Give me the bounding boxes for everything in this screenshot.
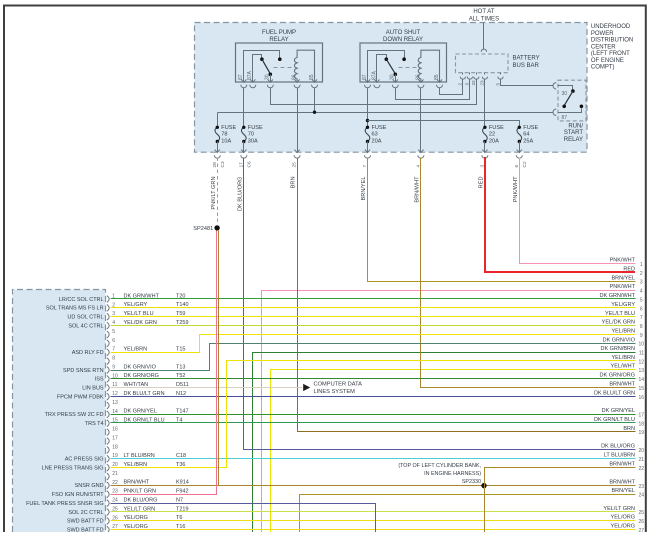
left connector pin 7 stub	[107, 347, 115, 356]
left pin 14 wire label DK GRN/YEL T147	[124, 409, 189, 415]
wire BRN/WHT asd relay coil to right pin 15	[421, 158, 636, 388]
svg-text:SWD BATT FD: SWD BATT FD	[67, 528, 104, 532]
svg-text:23: 23	[112, 489, 118, 495]
wire YEL/BRN left pin 7 to right pin 9	[111, 335, 636, 353]
svg-text:T147: T147	[176, 409, 189, 415]
svg-text:10: 10	[639, 342, 645, 348]
svg-text:PNK/LT GRN: PNK/LT GRN	[124, 489, 157, 495]
bus bar pin 23	[480, 73, 488, 86]
left connector pin 19 stub	[107, 453, 118, 462]
left connector pin 22 stub	[107, 480, 118, 489]
asd relay pin connector at x=439.5	[437, 79, 443, 87]
fuel pump relay pin connector at x=243.8	[241, 79, 247, 87]
right pin 3 label BRN/YEL	[611, 275, 642, 285]
svg-text:UD SOL CTRL: UD SOL CTRL	[67, 315, 103, 321]
svg-text:C6: C6	[246, 161, 252, 167]
svg-text:DK BLU/ORG: DK BLU/ORG	[601, 443, 635, 449]
svg-text:15: 15	[639, 386, 645, 392]
svg-text:87: 87	[362, 74, 368, 80]
svg-text:YEL/DK GRN: YEL/DK GRN	[602, 320, 635, 326]
svg-text:14: 14	[639, 377, 645, 383]
svg-text:BRN/WHT: BRN/WHT	[124, 480, 150, 486]
svg-text:1: 1	[640, 262, 643, 268]
svg-text:3: 3	[465, 83, 470, 86]
left connector pin 15 stub	[107, 418, 118, 427]
wire: bus bar pin 23 down to fuse 22	[484, 79, 486, 128]
wire DK BLU/ORG fuse 70 to right pin 20	[244, 158, 636, 450]
left connector pin 8 stub	[107, 356, 115, 365]
right pin 10 label DK GRN/VIO	[603, 337, 645, 347]
svg-text:BRN/WHT: BRN/WHT	[609, 462, 635, 468]
left connector pin 12 stub	[107, 391, 118, 400]
wire LT BLU/BRN left pin 19 to right pin 21	[111, 458, 636, 460]
svg-text:16: 16	[112, 427, 118, 433]
left pin 7 wire label YEL/BRN T15	[124, 347, 186, 353]
fuel pump relay mechanical link (dashed)	[274, 67, 295, 69]
left connector pin 11 stub	[107, 382, 118, 391]
svg-text:9: 9	[640, 333, 643, 339]
right pin 12 label YEL/BRN	[611, 355, 644, 365]
left pin 12 wire label DK BLU/LT GRN N12	[124, 391, 187, 397]
svg-text:23: 23	[639, 484, 645, 490]
left connector pin 10 stub	[107, 373, 118, 382]
wire: below fuse 64 to pdc edge	[519, 142, 521, 153]
left connector pin 21 stub	[107, 471, 118, 480]
wire: asd87 branch to fuse 64	[368, 121, 520, 128]
wire BRN/WHT splice SP2330 up to right pin 22	[485, 468, 636, 486]
svg-text:SOL 4C CTRL: SOL 4C CTRL	[68, 323, 103, 329]
right pin 7 label YEL/LT BLU	[605, 311, 643, 321]
svg-text:AUTO SHUT: AUTO SHUT	[386, 30, 421, 36]
svg-text:ISS: ISS	[95, 377, 104, 383]
asd relay fixed contact 87	[402, 57, 406, 61]
bus bar pin 3	[465, 73, 473, 86]
left pin 10 wire label DK GRN/ORG T52	[124, 373, 186, 379]
wire DK BLU/LT GRN left pin 12 to right pin 16	[111, 396, 636, 398]
left connector pin 25 stub	[107, 506, 118, 515]
right pin 21 label LT BLU/BRN	[604, 453, 645, 463]
splice SP2481	[214, 225, 219, 230]
svg-text:TRS T4: TRS T4	[85, 421, 104, 427]
label: fuel pump relay	[262, 30, 296, 43]
svg-text:8: 8	[112, 356, 115, 362]
wire WHT/TAN left pin 11 to computer data lines arrow	[111, 387, 303, 389]
svg-text:RUN/: RUN/	[568, 123, 583, 129]
svg-text:FPCM PWM FDBK: FPCM PWM FDBK	[57, 394, 104, 400]
right pin 23 label BRN/WHT	[609, 480, 644, 490]
pdc exit connector pin 6	[514, 150, 528, 168]
svg-text:AC PRESS SIG: AC PRESS SIG	[65, 457, 104, 463]
left connector pin 13 stub	[107, 400, 118, 409]
svg-text:17: 17	[112, 435, 118, 441]
left connector pin 16 stub	[107, 427, 118, 436]
left pin 19 wire label LT BLU/BRN C18	[124, 453, 187, 459]
label: hot at all times	[469, 9, 499, 22]
svg-text:YEL/BRN: YEL/BRN	[611, 329, 635, 335]
svg-text:21: 21	[639, 457, 645, 463]
wire BRN/YEL from bottom of diagram to right pin 24	[300, 495, 636, 533]
wire YEL/ORG left pin 26 to right pin 26	[111, 520, 636, 522]
svg-text:DK GRN/VIO: DK GRN/VIO	[603, 337, 636, 343]
svg-text:13: 13	[639, 368, 645, 374]
wire BRN/WHT splice SP2330 down to bottom of diagram	[484, 486, 486, 533]
fuel pump relay pin connector at x=252.8	[250, 79, 256, 87]
svg-text:30: 30	[265, 74, 271, 80]
svg-text:FUSE: FUSE	[248, 125, 263, 131]
svg-text:FUEL PUMP: FUEL PUMP	[262, 30, 296, 36]
pdc exit connector pin 25	[292, 150, 300, 168]
run/start relay armature contact	[562, 105, 566, 109]
left pin 27 wire label YEL/ORG T16	[124, 524, 186, 530]
svg-text:87A: 87A	[247, 70, 253, 80]
svg-text:20A: 20A	[489, 138, 499, 144]
svg-text:PNK/WHT: PNK/WHT	[610, 258, 636, 264]
svg-text:PNK/WHT: PNK/WHT	[610, 284, 636, 290]
svg-text:BRN/YEL: BRN/YEL	[611, 275, 635, 281]
wire BRN/WHT left pin 22 to right pin 23	[111, 485, 636, 487]
left pin 9 wire label DK GRN/VIO T13	[124, 364, 186, 370]
svg-text:LR/CC SOL CTRL: LR/CC SOL CTRL	[59, 297, 104, 303]
svg-text:7: 7	[640, 315, 643, 321]
fuel pump relay pin connector at x=270.3	[267, 79, 273, 87]
underhood power distribution center box	[195, 23, 588, 153]
svg-text:BRN/WHT: BRN/WHT	[415, 176, 421, 203]
wire PNK/LT GRN from fuse 78 to splice SP2481 (dashed)	[217, 158, 219, 225]
svg-text:10A: 10A	[221, 138, 231, 144]
wire DK GRN/BRN from bottom of diagram to right pin 11	[253, 353, 636, 533]
svg-text:BRN/YEL: BRN/YEL	[361, 177, 367, 201]
right pin 9 label YEL/BRN	[611, 329, 642, 339]
label: battery bus bar	[513, 56, 540, 69]
svg-text:COMPUTER DATA: COMPUTER DATA	[314, 382, 363, 388]
svg-text:7: 7	[112, 347, 115, 353]
bus bar pin 33	[471, 73, 479, 86]
wire DK GRN/VIO left pin 9 to right pin 10	[111, 344, 636, 371]
svg-text:BRN/YEL: BRN/YEL	[611, 488, 635, 494]
svg-text:OF ENGINE: OF ENGINE	[591, 58, 624, 64]
left pin 25 wire label YEL/LT GRN T219	[124, 506, 189, 512]
svg-text:POWER: POWER	[591, 31, 614, 37]
svg-text:87: 87	[562, 115, 568, 121]
svg-text:FUSE: FUSE	[372, 125, 387, 131]
right pin 18 label DK GRN/LT BLU	[594, 417, 644, 427]
svg-text:C3: C3	[220, 161, 226, 167]
left pin 3 wire label YEL/LT BLU T59	[124, 311, 186, 317]
asd relay pin 87A internal wire	[377, 55, 387, 83]
svg-text:BUS BAR: BUS BAR	[513, 63, 540, 69]
fuse 22 20A	[483, 125, 505, 145]
wire: fp relay 87 down to fuse 70	[243, 88, 245, 128]
svg-text:F942: F942	[176, 489, 189, 495]
svg-text:BRN: BRN	[291, 177, 297, 189]
asd relay mechanical link (dashed)	[399, 67, 419, 69]
svg-text:YEL/ORG: YEL/ORG	[611, 515, 635, 521]
svg-text:LNE PRESS TRANS SIG: LNE PRESS TRANS SIG	[42, 465, 104, 471]
svg-text:78: 78	[221, 132, 227, 138]
asd relay pin connector at x=420.9	[418, 79, 424, 87]
svg-text:SP2481: SP2481	[193, 226, 213, 232]
svg-text:9: 9	[112, 364, 115, 370]
fuse 63 20A	[365, 125, 387, 145]
svg-text:3: 3	[640, 280, 643, 286]
svg-text:K914: K914	[176, 480, 189, 486]
fuel pump relay contact 87A	[260, 57, 264, 61]
svg-text:16: 16	[639, 395, 645, 401]
wire: fp relay 86 coil output down to pdc exit	[297, 88, 299, 153]
left pin 2 wire label YEL/GRY T140	[124, 302, 189, 308]
svg-text:COMPT): COMPT)	[591, 65, 615, 71]
pdc exit connector pin 17	[238, 150, 252, 168]
svg-text:26: 26	[639, 519, 645, 525]
label: underhood power distribution center	[591, 24, 633, 70]
svg-text:SOL 2C CTRL: SOL 2C CTRL	[68, 510, 103, 516]
wire YEL/DK GRN left pin 4 to right pin 8	[111, 325, 636, 327]
svg-text:DK BLU/ORG: DK BLU/ORG	[237, 177, 243, 212]
svg-text:BRN/WHT: BRN/WHT	[609, 480, 635, 486]
right pin 4 label PNK/WHT	[610, 284, 643, 294]
left connector pin 26 stub	[107, 515, 118, 524]
left pin 15 wire label DK GRN/LT BLU T4	[124, 418, 183, 424]
wire RED fuse 22 to right pin 2	[485, 157, 635, 272]
svg-text:17: 17	[639, 412, 645, 418]
svg-text:RELAY: RELAY	[564, 137, 583, 143]
pdc exit connector pin 7	[362, 150, 370, 168]
svg-text:24: 24	[639, 493, 645, 499]
right pin 19 label BRN	[623, 426, 644, 436]
wire YEL/BRN left pin 20 to right pin 12	[111, 361, 636, 468]
wire: fp relay 85 down to rail	[314, 88, 316, 113]
svg-text:CENTER: CENTER	[591, 44, 616, 50]
wire DK GRN/LT BLU left pin 15 to right pin 18	[111, 422, 636, 424]
run/start relay pin 87 wire	[553, 109, 582, 116]
asd relay pin connector at x=367.5	[365, 79, 371, 87]
left pin 22 wire label BRN/WHT K914	[124, 480, 189, 486]
svg-text:4: 4	[640, 289, 643, 295]
svg-text:12: 12	[639, 359, 645, 365]
fuel pump relay pin 87 internal wire	[244, 51, 280, 83]
wire: bus bar pin 3 to asd relay 30	[396, 79, 470, 100]
svg-text:5: 5	[640, 297, 643, 303]
svg-text:DK GRN/LT BLU: DK GRN/LT BLU	[594, 417, 635, 423]
svg-text:30: 30	[390, 74, 396, 80]
svg-text:YEL/WHT: YEL/WHT	[611, 364, 636, 370]
svg-text:YEL/BRN: YEL/BRN	[124, 347, 148, 353]
svg-text:24: 24	[112, 498, 118, 504]
right pin 1 label PNK/WHT	[610, 258, 643, 268]
run/start relay pin 30 wire	[553, 83, 573, 90]
svg-text:DOWN RELAY: DOWN RELAY	[383, 37, 423, 43]
svg-text:13: 13	[112, 400, 118, 406]
fuel pump relay pin 87A internal wire	[253, 55, 262, 83]
svg-text:SOL TRANS MS FS LR: SOL TRANS MS FS LR	[46, 306, 104, 312]
right pin 26 label YEL/ORG	[611, 515, 645, 525]
run/start relay fixed contact 87	[580, 105, 584, 109]
svg-text:22: 22	[489, 132, 495, 138]
fuse 64 25A	[517, 125, 539, 145]
svg-text:YEL/ORG: YEL/ORG	[611, 523, 635, 529]
svg-text:T13: T13	[176, 364, 185, 370]
svg-text:11: 11	[639, 351, 644, 357]
bus bar pin 2	[458, 73, 466, 86]
svg-text:DK GRN/WHT: DK GRN/WHT	[600, 293, 636, 299]
fuse 70 30A	[241, 125, 263, 145]
svg-text:63: 63	[372, 132, 378, 138]
svg-text:85: 85	[434, 74, 440, 80]
left connector pin 1 stub	[107, 293, 115, 302]
wire: bus bar pin 2 to asd relay 85	[440, 79, 463, 95]
svg-text:DK GRN/ORG: DK GRN/ORG	[600, 373, 635, 379]
svg-text:ALL TIMES: ALL TIMES	[469, 16, 499, 22]
junction: fp85 / rail	[313, 111, 316, 114]
svg-text:8: 8	[640, 324, 643, 330]
svg-text:87A: 87A	[371, 70, 377, 80]
label: auto shut down relay	[383, 30, 423, 43]
wire PNK/WHT fuse 64 to right pin 1	[520, 158, 636, 264]
svg-text:86: 86	[415, 74, 421, 80]
left connector pin 5 stub	[107, 329, 115, 338]
battery bus bar	[456, 54, 509, 73]
svg-text:22: 22	[112, 480, 118, 486]
left module connector box	[13, 290, 106, 533]
left connector pin 17 stub	[107, 435, 118, 444]
svg-text:BRN: BRN	[623, 426, 635, 432]
left pin 23 wire label PNK/LT GRN F942	[124, 489, 189, 495]
svg-text:FUSE: FUSE	[221, 125, 236, 131]
left connector pin 23 stub	[107, 489, 118, 498]
svg-text:IN ENGINE HARNESS): IN ENGINE HARNESS)	[424, 471, 481, 477]
fuel pump relay coil 86-85	[294, 50, 314, 82]
svg-text:33: 33	[471, 80, 476, 86]
svg-text:FUSE: FUSE	[489, 125, 504, 131]
svg-text:DK GRN/VIO: DK GRN/VIO	[124, 364, 157, 370]
svg-text:23: 23	[480, 80, 485, 86]
wire PNK/WHT from bottom of diagram to right pin 4	[262, 291, 636, 533]
svg-text:30A: 30A	[248, 138, 258, 144]
right pin 15 label BRN/WHT	[609, 381, 644, 391]
right pin 16 label DK BLU/LT GRN	[594, 390, 644, 400]
svg-text:20: 20	[639, 448, 645, 454]
svg-text:FSO IGN RUN/STRT: FSO IGN RUN/STRT	[52, 492, 104, 498]
left connector pin 3 stub	[107, 311, 115, 320]
right pin 24 label BRN/YEL	[611, 488, 644, 498]
svg-text:PNK/LT GRN: PNK/LT GRN	[211, 177, 217, 210]
left pin 4 wire label YEL/DK GRN T259	[124, 320, 189, 326]
svg-text:18: 18	[639, 421, 645, 427]
right pin 6 label YEL/GRY	[611, 302, 643, 312]
svg-text:SNSR GND: SNSR GND	[75, 483, 104, 489]
wire: rail corner down to fuse 78	[217, 113, 219, 128]
run/start relay box	[558, 80, 586, 121]
wire PNK/LT GRN left pin 23 up to splice SP2481	[111, 231, 217, 495]
svg-text:SWD BATT FD: SWD BATT FD	[67, 519, 104, 525]
right pin 13 label YEL/WHT	[611, 364, 645, 374]
svg-text:64: 64	[523, 132, 529, 138]
left connector pin 9 stub	[107, 364, 115, 373]
wire DK BLU/ORG left pin 24 down to bottom of diagram	[111, 504, 376, 533]
wire DK GRN/ORG left pin 10 to right pin 14	[111, 378, 636, 380]
svg-text:DK GRN/BRN: DK GRN/BRN	[600, 346, 635, 352]
wire: below fuse 63 to pdc edge	[367, 142, 369, 153]
wire: bus bar pin 33 to fp relay 30	[271, 79, 477, 105]
svg-text:85: 85	[309, 74, 315, 80]
right pin 5 label DK GRN/WHT	[600, 293, 643, 303]
svg-text:YEL/BRN: YEL/BRN	[611, 355, 635, 361]
svg-text:RED: RED	[623, 266, 635, 272]
svg-text:21: 21	[112, 471, 118, 477]
svg-text:DISTRIBUTION: DISTRIBUTION	[591, 38, 633, 44]
svg-text:70: 70	[248, 132, 254, 138]
left pin 11 wire label WHT/TAN D511	[124, 382, 189, 388]
wire: run/start relay 87 rail to fuse 78 (tap fp relay 85)	[218, 112, 554, 114]
svg-text:FUEL TANK PRESS SNSR SIG: FUEL TANK PRESS SNSR SIG	[26, 501, 104, 507]
svg-text:LIN BUS: LIN BUS	[82, 386, 104, 392]
svg-text:25: 25	[292, 162, 298, 168]
label SP2330 (top of left cylinder bank in engine harness)	[398, 463, 481, 485]
wire: below fuse 78 to pdc edge	[217, 142, 219, 153]
svg-text:FUSE: FUSE	[523, 125, 538, 131]
svg-text:20A: 20A	[372, 138, 382, 144]
svg-text:6: 6	[640, 306, 643, 312]
bus bar pin 5	[495, 73, 503, 86]
svg-text:86: 86	[292, 74, 298, 80]
left connector pin 14 stub	[107, 409, 118, 418]
svg-text:(TOP OF LEFT CYLINDER BANK,: (TOP OF LEFT CYLINDER BANK,	[398, 463, 481, 469]
wire DK GRN/YEL left pin 14 to right pin 17	[111, 414, 636, 416]
svg-text:87: 87	[238, 74, 244, 80]
svg-text:BATTERY: BATTERY	[513, 56, 540, 62]
svg-text:YEL/LT BLU: YEL/LT BLU	[605, 311, 635, 317]
svg-text:N7: N7	[176, 497, 183, 503]
fuel pump relay pin connector at x=297.1	[294, 79, 300, 87]
run/start relay contact 30	[571, 89, 575, 93]
svg-text:30: 30	[562, 91, 568, 97]
svg-text:25A: 25A	[523, 138, 533, 144]
svg-text:START: START	[564, 130, 583, 136]
svg-text:25: 25	[639, 510, 645, 516]
svg-text:HOT AT: HOT AT	[473, 9, 494, 15]
wire YEL/WHT from bottom of diagram to right pin 13	[271, 370, 636, 533]
svg-text:14: 14	[112, 409, 118, 415]
svg-text:DK BLU/LT GRN: DK BLU/LT GRN	[594, 390, 635, 396]
svg-text:ASD RLY FD: ASD RLY FD	[72, 350, 104, 356]
pdc exit connector pin 28	[212, 150, 226, 168]
svg-text:22: 22	[639, 466, 645, 472]
asd relay pin connector at x=376.9	[374, 79, 380, 87]
left connector pin 4 stub	[107, 320, 115, 329]
asd relay coil 86-85	[418, 50, 439, 82]
right pin 17 label DK GRN/YEL	[602, 408, 645, 418]
pdc exit connector pin 4	[416, 150, 424, 168]
left connector pin 6 stub	[107, 338, 115, 347]
right pin 11 label DK GRN/BRN	[600, 346, 644, 356]
svg-text:UNDERHOOD: UNDERHOOD	[591, 24, 631, 30]
svg-text:RED: RED	[479, 177, 485, 189]
svg-text:2: 2	[458, 83, 463, 86]
arrow: computer data lines system	[303, 384, 310, 391]
pdc exit connector pin 3	[480, 150, 488, 168]
svg-text:YEL/LT GRN: YEL/LT GRN	[603, 506, 635, 512]
asd relay pin 87 internal wire	[368, 51, 405, 83]
svg-text:2: 2	[640, 271, 643, 277]
right pin 8 label YEL/DK GRN	[602, 320, 643, 330]
asd relay armature 30	[386, 59, 397, 82]
wire YEL/GRY left pin 2 to right pin 6	[111, 307, 636, 309]
svg-text:DK GRN/YEL: DK GRN/YEL	[124, 409, 157, 415]
label: computer data lines system	[314, 382, 363, 396]
left connector pin 20 stub	[107, 462, 118, 471]
svg-text:SP2330: SP2330	[462, 479, 481, 485]
wire: asd relay 87 down to fuse 63	[367, 88, 369, 128]
